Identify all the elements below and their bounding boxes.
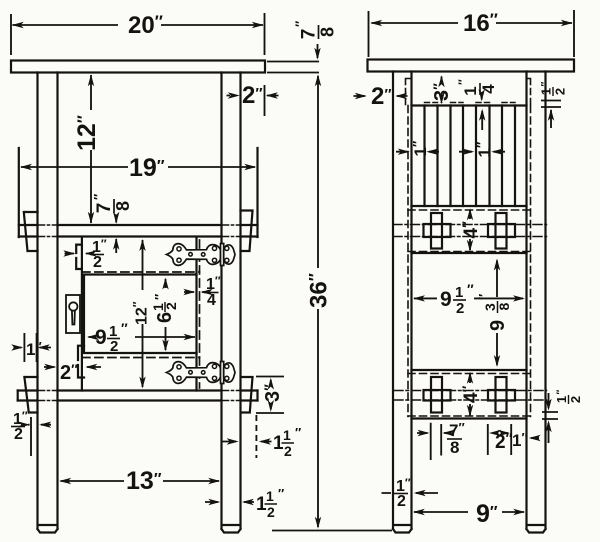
svg-text:2: 2 <box>397 493 406 510</box>
13in arrows <box>59 478 71 484</box>
upper tenon cross left: wedge <box>431 213 442 249</box>
door rail hidden line bottom (dashed) <box>82 357 200 359</box>
label 36in (rotated) <box>306 273 333 308</box>
upper right wedge (key) <box>241 211 253 252</box>
svg-text:1: 1 <box>554 396 569 403</box>
dim 1.5in leg width: stems <box>205 501 254 503</box>
svg-text:7: 7 <box>299 29 320 40</box>
svg-text:″: ″ <box>121 320 128 336</box>
label 7/8 top middle (rotated fraction) <box>293 21 338 40</box>
upper tenon cross left: tenon bar <box>424 224 451 237</box>
1/2 lower left arrows <box>18 422 30 428</box>
dim 36in: line <box>317 76 319 527</box>
door stop strip top-left <box>76 245 82 269</box>
dim 1.5in tenon: stems and dashed ext <box>222 441 272 443</box>
door panel inner rectangle <box>84 275 197 354</box>
left front leg <box>38 73 58 533</box>
svg-text:9: 9 <box>487 320 509 331</box>
7/8 top middle arrow <box>314 48 320 60</box>
upper stretcher hidden outline (dashed) <box>408 210 531 252</box>
lower stretcher hidden outline (dashed) <box>408 374 531 417</box>
3in rail arrows <box>438 75 444 87</box>
svg-text:2: 2 <box>568 396 583 403</box>
upper shelf edges with tenons <box>19 225 258 237</box>
svg-text:″: ″ <box>278 486 284 501</box>
16in arrows <box>370 20 382 26</box>
1/2 top right arrow <box>548 109 554 121</box>
label 1in slat gap (rotated) <box>410 141 430 157</box>
dim 1in slat gap left: stems <box>396 151 439 153</box>
ornamental strap hinge top <box>167 244 236 266</box>
1/2 strip arrows <box>63 250 75 256</box>
svg-text:9: 9 <box>95 326 107 349</box>
label 1/2 lower right (rotated fraction) <box>554 390 583 405</box>
9.375 arrows <box>494 259 500 271</box>
dim 1/2 door strip: arrow stems <box>65 253 91 255</box>
4in upper arrows <box>467 208 473 220</box>
label 1/4 slat tenon (rotated fraction) <box>456 79 498 96</box>
7/8 shelf arrows <box>113 212 119 224</box>
1in right arrow <box>529 435 541 441</box>
1/2 bottom leg arrow <box>414 490 426 496</box>
label 1/2 top right (rotated fraction) <box>539 82 568 97</box>
9.5in door arrows <box>87 334 99 340</box>
upper left wedge (key) <box>24 212 38 251</box>
upper tenon cross right: wedge <box>496 213 507 249</box>
lower shelf tenon end lines <box>18 391 258 401</box>
dim 12in upper: line <box>90 75 92 223</box>
label 4in lower (rotated) <box>459 385 482 403</box>
2in door bottom arrows <box>44 364 56 370</box>
dim 9in: line <box>414 511 524 513</box>
dim 2in tenon width: ext lines and stems <box>488 424 511 455</box>
dim 3in lower right wedge: ticks and line <box>256 377 284 414</box>
6.5in arrows <box>162 278 168 290</box>
lower tenon cross right: wedge <box>496 377 507 413</box>
label 6.5in (rotated) <box>150 294 179 323</box>
door overlay right edge (dashed) <box>199 240 201 388</box>
lower stretcher rail edges <box>412 370 527 419</box>
door opening left edge (solid) <box>81 237 83 391</box>
dim 1/2 lower left: ext line and stems <box>28 417 51 456</box>
svg-text:″: ″ <box>456 79 470 85</box>
lower shelf hidden lines in legs (dash-dot) <box>38 391 241 401</box>
dim 1in lower wedge: ext lines and stems <box>14 333 52 362</box>
2in right overhang arrows <box>355 93 367 99</box>
svg-text:4: 4 <box>479 84 498 94</box>
2in tenon arrows <box>489 430 501 436</box>
svg-text:2: 2 <box>163 302 179 310</box>
dim 12in door opening: line <box>142 240 144 387</box>
keyhole escutcheon plate <box>66 295 80 333</box>
svg-text:1: 1 <box>266 488 274 504</box>
7/8 wedge arrows <box>418 430 430 436</box>
dim 1in right: stem <box>531 437 539 439</box>
dim 19in: line <box>21 166 255 168</box>
dim 9.5in door: line <box>89 336 196 338</box>
lower tenon cross left: tenon bar <box>424 390 451 401</box>
dim 3in side rail: line <box>441 77 443 104</box>
label 4in upper (rotated) <box>459 221 482 239</box>
1/4 arrows <box>183 289 195 295</box>
svg-text:″: ″ <box>556 390 567 395</box>
dim 16in: ticks and line <box>369 10 575 57</box>
lower tenon cross left: wedge <box>431 377 442 413</box>
1in slat gap arrows <box>398 149 410 155</box>
top board (20in top) <box>11 61 265 73</box>
1/4 slat tenon arrows <box>479 89 485 101</box>
top side rail bottom edge <box>412 104 527 106</box>
4in lower arrows <box>467 372 473 384</box>
dim 1/4 slat tenon: stems <box>481 94 484 130</box>
upper centre lines through tenons (dash-dot) <box>393 225 547 237</box>
top side rail hidden tenons (dashed) <box>406 79 531 106</box>
20in arrows <box>12 22 24 28</box>
svg-text:1: 1 <box>461 86 480 95</box>
dim 7/8 wedge width: ext lines and stems <box>417 423 447 460</box>
label 3in side rail (rotated) <box>430 83 453 101</box>
svg-text:″: ″ <box>540 82 551 87</box>
svg-text:″: ″ <box>91 194 106 200</box>
right front leg <box>222 73 241 533</box>
1.5 leg arrows <box>208 499 220 505</box>
1.5 tenon arrows <box>227 438 239 444</box>
ornamental strap hinge bottom <box>167 362 236 384</box>
dim 2in right overhang: stems <box>354 95 408 97</box>
dim 9.5in stretcher span: line <box>414 297 523 299</box>
slats (4) <box>425 106 516 207</box>
svg-text:1: 1 <box>539 88 554 95</box>
dim 1/2 lower right: ticks and stems <box>542 393 558 443</box>
9in arrows <box>413 509 425 515</box>
RIGHT VIEW STRUCTURE <box>368 60 575 533</box>
dim 1/2 top right: ticks and stems <box>541 101 561 129</box>
svg-text:″: ″ <box>293 21 308 27</box>
36in arrows <box>315 74 321 86</box>
svg-text:8: 8 <box>496 303 512 311</box>
upper shelf tenon end / 19in extension line left <box>18 148 20 237</box>
svg-text:″: ″ <box>295 425 301 440</box>
3in wedge arrows <box>268 378 274 390</box>
label 9.375 (rotated) <box>476 294 512 331</box>
lower centre lines through tenons (dash-dot) <box>394 391 547 401</box>
middle 7/8 top: board edge extension lines <box>267 62 319 73</box>
2in left overhang arrows <box>228 92 240 98</box>
lower tenon cross right: tenon bar <box>488 390 515 401</box>
svg-text:1: 1 <box>283 427 291 443</box>
label 12in upper (rotated) <box>73 115 101 151</box>
svg-text:1: 1 <box>455 284 463 301</box>
dim 13in: line <box>61 480 220 482</box>
dim 7/8 shelf: arrows stems <box>115 216 117 253</box>
dim 4in upper stretcher: line <box>469 211 471 251</box>
svg-text:2: 2 <box>14 426 23 443</box>
upper tenon cross right: tenon bar <box>488 224 515 237</box>
lower left wedge (key) <box>24 377 37 413</box>
19in arrows <box>20 164 32 170</box>
dim 1/4 door gap: arrow stems <box>184 291 205 293</box>
svg-text:7: 7 <box>94 203 115 214</box>
12in door arrows <box>139 239 145 251</box>
door right edge (solid) <box>195 237 197 391</box>
upper stretcher rail edges <box>412 206 527 253</box>
1in wedge arrows <box>11 344 23 350</box>
dim 9.375in: line <box>496 261 498 366</box>
9.5in span arrows <box>413 295 425 301</box>
svg-text:2: 2 <box>456 300 464 317</box>
dim 2in left overhang: extension line <box>227 85 279 116</box>
label 1in slat width (rotated) <box>474 142 494 158</box>
1in slat width arrows <box>462 149 474 155</box>
label 12in door (rotated) <box>131 301 151 325</box>
svg-text:8: 8 <box>450 438 459 457</box>
lower shelf edges with tenons <box>18 391 258 401</box>
baseline under right view left leg <box>272 530 392 532</box>
dim 4in lower stretcher: line <box>469 374 471 416</box>
right side leg <box>527 72 546 533</box>
svg-text:4: 4 <box>207 292 216 309</box>
svg-text:6: 6 <box>154 312 176 323</box>
svg-text:8: 8 <box>318 27 338 37</box>
svg-text:2: 2 <box>110 338 118 355</box>
svg-text:2: 2 <box>553 88 568 95</box>
top board (16in top) <box>368 60 575 72</box>
1/2 lower right arrows <box>545 399 551 411</box>
door stop strip bottom-left <box>78 346 84 378</box>
upper shelf tenon end / 19in extension line right <box>256 148 258 237</box>
dim 1/2 bottom left leg: bar and stem <box>382 492 439 494</box>
svg-text:″: ″ <box>476 294 491 300</box>
svg-text:2: 2 <box>284 443 292 459</box>
svg-text:9: 9 <box>440 288 452 311</box>
dim 20in: extension ticks and line <box>11 13 265 55</box>
dim 2in door bottom left: arrow stems <box>44 366 101 368</box>
svg-text:″: ″ <box>467 281 474 297</box>
upper shelf hidden lines in legs (dash-dot) <box>38 225 241 237</box>
stretcher hidden side lines (dashed verticals) <box>408 106 531 417</box>
12in upper arrows <box>88 74 94 86</box>
dim 6.5in panel: line <box>165 279 167 350</box>
left side leg <box>393 72 412 533</box>
label 7/8 shelf (rotated fraction) <box>91 194 133 214</box>
label 3in wedge (rotated) <box>261 384 284 402</box>
lower right wedge (key) <box>241 377 253 413</box>
svg-text:2: 2 <box>93 254 102 271</box>
svg-text:8: 8 <box>113 201 133 211</box>
svg-text:2: 2 <box>267 504 275 520</box>
door rail hidden line top (dashed) <box>82 271 200 273</box>
svg-text:″: ″ <box>152 294 167 300</box>
middle 7/8 arrow stem <box>317 44 319 58</box>
dim 1in slat width: stems <box>459 151 505 153</box>
slat top hidden caps (dashed) <box>425 102 516 104</box>
